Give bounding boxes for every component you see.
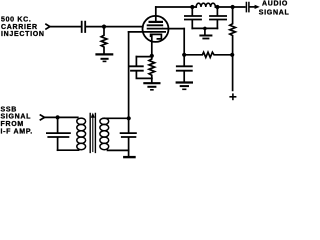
svg-text:SSB: SSB — [1, 106, 18, 113]
svg-text:INJECTION: INJECTION — [1, 31, 45, 38]
svg-text:500 KC.: 500 KC. — [1, 17, 32, 24]
svg-text:SIGNAL: SIGNAL — [259, 10, 290, 17]
svg-text:I-F AMP.: I-F AMP. — [1, 129, 33, 136]
svg-text:CARRIER: CARRIER — [1, 24, 38, 31]
svg-text:FROM: FROM — [1, 121, 24, 128]
svg-text:AUDIO: AUDIO — [262, 1, 288, 8]
svg-text:SIGNAL: SIGNAL — [1, 114, 32, 121]
